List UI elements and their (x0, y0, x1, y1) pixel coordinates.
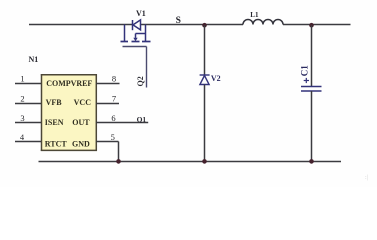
pin 4 (15, 141, 41, 143)
svg-text:VFB: VFB (46, 98, 63, 107)
svg-text:V1: V1 (136, 9, 146, 18)
pin 2 (15, 103, 41, 105)
diode V2 (200, 75, 210, 85)
svg-text:8: 8 (112, 74, 116, 84)
pin 3 (15, 122, 41, 124)
svg-text:Q2: Q2 (136, 76, 145, 86)
wire top rail right segment (283, 24, 351, 26)
svg-text:ISEN: ISEN (45, 118, 64, 127)
junction S / V2 top (202, 23, 207, 28)
svg-text:S: S (176, 16, 181, 26)
transistor V1 (P-MOSFET with body diode) (121, 20, 151, 47)
pin 6 / wire OUT (net Q1) (96, 122, 148, 124)
svg-text:COMPVREF: COMPVREF (46, 79, 92, 88)
plus marker of C1 (304, 78, 309, 83)
wire bottom rail (39, 161, 342, 163)
junction V2 bottom (202, 159, 207, 164)
wire C1 lower (311, 91, 313, 162)
body diode triangle (133, 20, 141, 30)
drain vertical (145, 25, 147, 42)
pin 7 (96, 103, 119, 105)
wire pin5 to ground rail (118, 142, 120, 162)
pin 1 (15, 83, 41, 85)
svg-text::|: :| (365, 175, 368, 181)
channel segment left (121, 41, 129, 43)
wire C1 upper (311, 25, 313, 86)
svg-text:7: 7 (112, 94, 116, 104)
svg-text:C1: C1 (299, 65, 309, 76)
channel segment right (142, 41, 151, 43)
pin 8 (96, 83, 120, 85)
wire V2 upper (204, 25, 206, 75)
svg-text:6: 6 (111, 113, 115, 123)
svg-text:Q1: Q1 (137, 115, 147, 124)
svg-text:L1: L1 (250, 11, 259, 19)
svg-text:GND: GND (72, 139, 90, 148)
svg-text:RTCT: RTCT (45, 139, 68, 148)
drain crossbar (136, 33, 146, 35)
inductor L1 (243, 20, 283, 25)
gate plate (123, 46, 147, 48)
svg-text:VCC: VCC (74, 98, 92, 107)
junction C1 bottom (309, 159, 314, 164)
cathode bar of body diode (132, 20, 134, 30)
junction pin5 / bottom rail (116, 159, 121, 164)
pin 5 (96, 141, 119, 143)
capacitor C1 (301, 87, 322, 92)
svg-text:3: 3 (20, 113, 24, 123)
source vertical (124, 25, 126, 42)
wire top rail left segment (29, 24, 133, 26)
svg-text:2: 2 (20, 94, 24, 104)
svg-text:OUT: OUT (72, 118, 90, 127)
IC pin names (45, 79, 93, 148)
junction C1 top (309, 23, 314, 28)
arrow shaft (135, 34, 137, 38)
svg-text:N1: N1 (29, 55, 39, 64)
channel segment middle (132, 41, 140, 43)
wire V2 lower (204, 85, 206, 162)
arrow head (133, 38, 137, 42)
svg-text:V2: V2 (211, 74, 221, 83)
wire gate of V1 down (net Q2) (146, 47, 148, 88)
IC N1 body (42, 75, 96, 150)
svg-text:5: 5 (111, 132, 115, 142)
svg-text:1: 1 (20, 74, 24, 84)
wire top rail mid segment (141, 24, 244, 26)
